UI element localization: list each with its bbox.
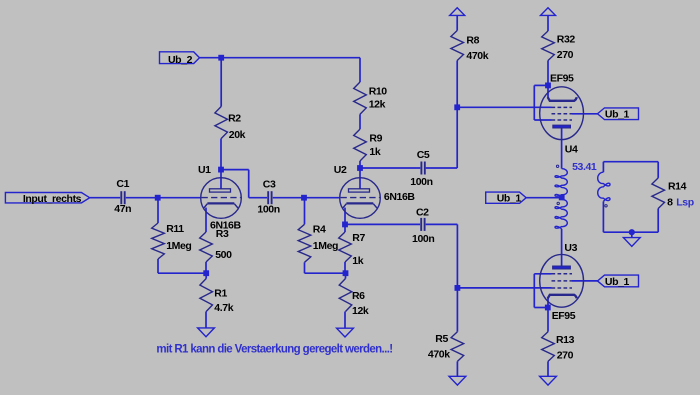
- svg-text:1Meg: 1Meg: [166, 240, 191, 252]
- svg-text:1k: 1k: [352, 255, 363, 267]
- svg-text:C3: C3: [263, 178, 276, 190]
- svg-text:R9: R9: [369, 132, 382, 144]
- svg-text:C2: C2: [416, 206, 429, 218]
- svg-text:R32: R32: [557, 33, 576, 45]
- svg-text:R8: R8: [466, 35, 479, 47]
- svg-text:47n: 47n: [114, 203, 131, 215]
- svg-text:1k: 1k: [369, 146, 380, 158]
- svg-text:Ub_2: Ub_2: [168, 54, 193, 66]
- svg-text:470k: 470k: [428, 348, 450, 360]
- svg-text:470k: 470k: [466, 50, 488, 62]
- svg-text:R4: R4: [313, 224, 326, 236]
- svg-text:mit R1 kann die Verstaerkung g: mit R1 kann die Verstaerkung geregelt we…: [156, 343, 392, 355]
- svg-text:6N16B: 6N16B: [384, 191, 416, 203]
- svg-text:Ub_1: Ub_1: [605, 276, 630, 288]
- svg-text:1Meg: 1Meg: [313, 240, 338, 252]
- svg-text:Lsp: Lsp: [676, 197, 693, 209]
- svg-text:100n: 100n: [257, 203, 279, 215]
- svg-text:8: 8: [667, 197, 673, 209]
- svg-text:R10: R10: [369, 86, 388, 98]
- svg-text:270: 270: [557, 49, 574, 61]
- svg-text:500: 500: [215, 249, 232, 261]
- svg-text:6N16B: 6N16B: [210, 220, 242, 232]
- svg-text:R5: R5: [435, 333, 448, 345]
- svg-text:270: 270: [557, 349, 574, 361]
- svg-text:R1: R1: [214, 287, 227, 299]
- svg-text:R14: R14: [668, 181, 687, 193]
- svg-text:12k: 12k: [369, 99, 386, 111]
- svg-text:4.7k: 4.7k: [214, 302, 233, 314]
- svg-text:U3: U3: [564, 242, 577, 254]
- svg-text:Ub_1: Ub_1: [605, 109, 630, 121]
- svg-text:12k: 12k: [352, 305, 369, 317]
- svg-text:R13: R13: [556, 334, 575, 346]
- svg-text:U1: U1: [198, 164, 211, 176]
- svg-text:100n: 100n: [412, 233, 434, 245]
- svg-text:R7: R7: [352, 232, 365, 244]
- svg-text:100n: 100n: [410, 176, 432, 188]
- svg-text:EF95: EF95: [550, 72, 574, 84]
- svg-text:U4: U4: [565, 143, 578, 155]
- svg-text:Ub_1: Ub_1: [497, 193, 522, 205]
- svg-text:53.41: 53.41: [572, 161, 597, 173]
- svg-text:R11: R11: [166, 223, 184, 235]
- svg-text:R2: R2: [228, 113, 241, 125]
- svg-text:R6: R6: [352, 290, 365, 302]
- svg-text:20k: 20k: [229, 129, 246, 141]
- svg-text:Input_rechts: Input_rechts: [23, 193, 82, 205]
- svg-text:EF95: EF95: [552, 310, 576, 322]
- svg-text:U2: U2: [334, 164, 347, 176]
- svg-text:C5: C5: [417, 149, 430, 161]
- svg-text:C1: C1: [116, 178, 129, 190]
